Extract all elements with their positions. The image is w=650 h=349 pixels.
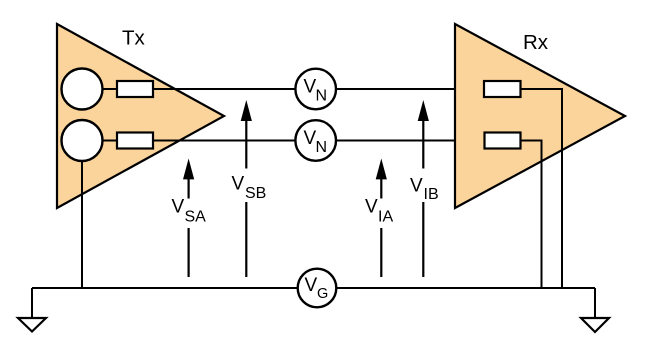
wire VN1 to Rx	[336, 88, 484, 90]
wire S1 to R1	[103, 88, 118, 90]
source circle S2	[62, 120, 103, 161]
wire R1 to VN1	[153, 88, 296, 90]
resistor R3 (Rx line A)	[484, 81, 521, 97]
source circle S1	[62, 69, 103, 110]
label VSA	[172, 197, 207, 226]
wire S2 down to ground bus	[81, 161, 83, 288]
svg-text:V: V	[172, 197, 185, 218]
noise source VN2	[295, 120, 336, 161]
svg-text:SA: SA	[185, 209, 207, 226]
resistor R2 (Tx line B)	[117, 133, 153, 149]
svg-text:V: V	[232, 174, 245, 195]
Tx amplifier block U1	[57, 24, 224, 208]
resistor R4 (Rx line B)	[485, 133, 521, 149]
svg-text:V: V	[305, 275, 318, 296]
label VIA	[365, 197, 393, 226]
svg-text:Rx: Rx	[523, 31, 549, 54]
label VIB	[410, 176, 439, 204]
wire R2 to VN2	[153, 140, 296, 142]
arrow VSA	[183, 159, 194, 278]
ground symbol (right)	[581, 288, 609, 332]
wire R4 to vertical drop	[521, 141, 542, 289]
svg-text:IB: IB	[424, 186, 439, 203]
svg-text:N: N	[316, 139, 328, 156]
svg-text:Tx: Tx	[122, 27, 146, 50]
ground source VG	[298, 269, 337, 308]
wire R3 to vertical drop	[521, 89, 563, 288]
noise source VN1	[295, 69, 336, 110]
svg-text:V: V	[365, 197, 378, 218]
ground symbol (left)	[18, 288, 46, 332]
wire VN2 to Rx	[336, 140, 485, 142]
svg-text:G: G	[317, 286, 328, 302]
svg-text:SB: SB	[245, 185, 266, 202]
resistor R1 (Tx line A)	[117, 81, 153, 97]
arrow VIB	[418, 100, 429, 277]
wire S2 to R2	[103, 140, 118, 142]
svg-text:V: V	[410, 176, 423, 197]
svg-text:IA: IA	[378, 209, 393, 226]
wire ground bus right of VG	[337, 287, 596, 289]
arrow VSB	[241, 100, 252, 277]
svg-text:N: N	[316, 88, 328, 105]
Rx amplifier block U2	[455, 24, 625, 208]
wire ground bus left of VG	[32, 287, 298, 289]
label VSB	[232, 174, 267, 203]
arrow VIA	[376, 159, 387, 278]
